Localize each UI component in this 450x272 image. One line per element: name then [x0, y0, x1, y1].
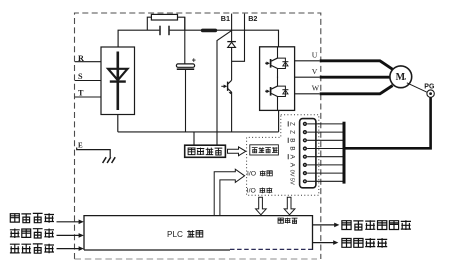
node V output	[295, 67, 320, 77]
svg-text:M: M	[396, 72, 406, 83]
label: buffer 缓冲区	[278, 218, 298, 224]
arrow: I/O output to PLC buffer (left)	[256, 197, 267, 215]
terminal bus bar	[343, 122, 346, 184]
arrow: PLC to I/O input (L-shaped)	[214, 169, 244, 215]
label+arrow: input 功能信号	[10, 244, 84, 254]
label: I/O input 输入	[247, 171, 272, 178]
wire: B1 stub	[231, 14, 233, 31]
svg-text:PG: PG	[424, 84, 435, 91]
svg-text:B2: B2	[248, 14, 257, 23]
svg-text:W: W	[312, 84, 320, 93]
svg-text:5V: 5V	[289, 178, 295, 185]
terminal pin A row 6	[288, 163, 342, 168]
capacitor C1 DC link electrolytic	[176, 17, 195, 132]
svg-text:I/O: I/O	[247, 171, 256, 178]
wire: stub from bus to switching power supply	[193, 132, 195, 145]
wire: positive DC bus (rectifier top to inverter top)	[118, 30, 278, 47]
inverter module U2 (box)	[260, 47, 295, 111]
PLC unit box	[84, 216, 313, 250]
transistor IGBT module T1 with diode	[265, 47, 288, 78]
svg-text:0V: 0V	[289, 170, 295, 177]
ground (chassis)	[77, 148, 116, 164]
terminal pin Abar row 5	[288, 154, 342, 159]
transistor Q1 brake chopper IGBT	[221, 80, 232, 132]
label+arrow: input 状态信号	[10, 229, 84, 239]
node S input terminal	[75, 72, 101, 81]
svg-text:B: B	[288, 146, 295, 150]
label+arrow: input 呼梯信号	[10, 213, 84, 224]
resistor R0 charging bypass	[147, 14, 185, 30]
wire: PG feedback (thick)	[345, 97, 430, 148]
svg-text:Z: Z	[288, 122, 295, 126]
svg-text:+: +	[192, 58, 196, 65]
label+arrow: output 呼梯记忆应答	[313, 220, 412, 230]
node E terminal	[78, 142, 83, 150]
node U output	[295, 51, 320, 61]
frame: inverter unit dashed border	[75, 13, 321, 259]
node R input terminal	[75, 54, 101, 63]
motor M1	[390, 66, 412, 88]
node T input terminal	[75, 88, 101, 97]
svg-text:V: V	[312, 67, 318, 76]
terminal pin Z row 2	[288, 130, 342, 134]
svg-text:E: E	[78, 142, 83, 150]
terminal pin Zbar row 1	[288, 121, 342, 126]
label: PLC部分	[167, 230, 203, 239]
label+arrow: output 楼层显示	[313, 238, 388, 248]
node B1 terminal label	[221, 14, 230, 23]
arrow: I/O output to PLC buffer (right)	[284, 197, 295, 215]
reactor L1 (filled) on DC bus	[201, 29, 217, 33]
diode D2 brake freewheel	[227, 31, 236, 81]
control section dotted boundary	[247, 115, 319, 196]
block: control circuit 控制回路	[250, 145, 279, 155]
wire: B2 lead down to chopper node	[232, 14, 245, 62]
rectifier bridge D1 (box with diode)	[101, 47, 135, 115]
encoder PG	[407, 83, 435, 98]
svg-text:U: U	[312, 51, 318, 60]
wire: negative DC bus (bottom)	[118, 111, 279, 132]
label: I/O output 输出	[247, 188, 273, 195]
svg-text:B1: B1	[221, 14, 230, 23]
svg-text:Z: Z	[288, 130, 295, 134]
contactor KM contact	[160, 26, 169, 36]
wire: U phase (thick) to motor	[320, 61, 393, 70]
arrow: power supply to control circuit	[228, 147, 246, 156]
wire: V phase (thick) to motor	[320, 76, 390, 79]
transistor IGBT module T2 with diode	[265, 77, 288, 111]
svg-text:B: B	[288, 138, 295, 142]
wire: tap from B1 node down to switching power supply	[217, 31, 232, 145]
terminal pin Bbar row 3	[288, 138, 342, 143]
svg-text:T: T	[78, 88, 84, 97]
block: switching power supply 开关电源	[185, 145, 226, 157]
node B2 terminal label	[248, 14, 257, 23]
terminal pin 0V row 7	[289, 170, 343, 177]
svg-text:PLC: PLC	[167, 230, 183, 239]
svg-text:I/O: I/O	[247, 188, 256, 195]
terminal pin B row 4	[288, 146, 342, 150]
wire: W phase (thick) to motor	[320, 86, 393, 94]
terminal block TB1	[300, 119, 316, 188]
node W output	[295, 84, 320, 94]
svg-text:S: S	[78, 72, 83, 81]
terminal pin 5V row 8	[289, 178, 343, 185]
